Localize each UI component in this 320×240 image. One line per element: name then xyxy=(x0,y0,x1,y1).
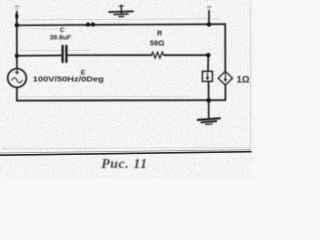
page artifact horizontal above caption rule xyxy=(2,148,250,149)
junction dot B on top wire xyxy=(91,22,95,26)
ground bottom bars xyxy=(198,118,220,120)
scan echo above top wire xyxy=(22,19,220,20)
wire top horizontal xyxy=(17,24,225,25)
svg-text:1Ω: 1Ω xyxy=(237,75,250,86)
svg-text:100V/50Hz/0Deg: 100V/50Hz/0Deg xyxy=(33,77,104,84)
wire middle horizontal left of capacitor xyxy=(17,54,62,56)
box probe element xyxy=(202,71,212,81)
capacitor C plates xyxy=(61,46,63,62)
junction dot top-right xyxy=(207,22,211,26)
node stub top-left xyxy=(16,12,18,26)
junction dot top-left xyxy=(15,23,19,27)
svg-text:E: E xyxy=(81,70,86,77)
junction dot bottom-right xyxy=(206,98,211,103)
source E sine wave xyxy=(12,78,22,83)
resistor R zigzag xyxy=(151,52,163,58)
wire box branch vertical upper xyxy=(207,55,209,71)
ground top stem tick xyxy=(119,5,124,7)
node label smudge top-left xyxy=(15,6,19,8)
wire right branch vertical upper xyxy=(224,24,226,71)
node stub top-right xyxy=(208,11,210,25)
ground top stem xyxy=(120,5,122,14)
junction dot A on top wire xyxy=(86,22,90,26)
source E plus sign xyxy=(15,70,19,74)
caption rule xyxy=(0,152,252,156)
svg-text:39.8uF: 39.8uF xyxy=(50,34,72,41)
source E circle xyxy=(8,69,27,88)
svg-text:C: C xyxy=(60,27,65,34)
scan echo below top wire left xyxy=(18,28,62,30)
wire right branch vertical lower xyxy=(224,85,226,100)
wire middle horizontal between C and R xyxy=(68,54,152,56)
node label smudge top-right xyxy=(207,6,212,8)
wire box branch vertical lower xyxy=(208,81,210,100)
junction dot middle-left xyxy=(15,54,19,58)
svg-text:R: R xyxy=(157,30,162,37)
wire left rail lower xyxy=(16,87,18,100)
connector blob on top-left stub xyxy=(15,14,18,18)
dependent source diamond xyxy=(218,71,232,85)
page artifact vertical right edge xyxy=(250,2,252,149)
ground top bars xyxy=(109,10,133,13)
wire middle horizontal right of resistor xyxy=(164,54,208,56)
wire left rail upper xyxy=(16,25,18,68)
svg-text:59Ω: 59Ω xyxy=(150,39,165,48)
diamond arrowhead xyxy=(224,79,227,82)
wire bottom horizontal xyxy=(17,99,226,102)
svg-text:Рис. 11: Рис. 11 xyxy=(101,156,147,171)
ground bottom stem xyxy=(208,101,210,118)
scan echo above middle wire xyxy=(18,49,90,52)
box probe arrowhead xyxy=(206,77,209,80)
diamond arrow stem xyxy=(224,73,226,80)
scan grain overlay xyxy=(0,0,253,179)
junction dot middle-right xyxy=(206,53,210,57)
box probe arrow xyxy=(207,73,209,78)
scan echo above bottom wire xyxy=(18,95,190,98)
